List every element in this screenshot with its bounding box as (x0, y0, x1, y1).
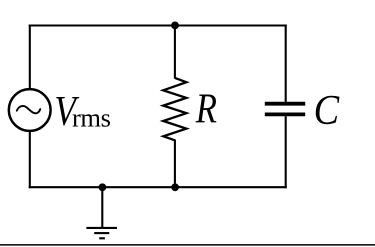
voltage source U1 (AC) (9, 89, 51, 131)
wire: AC source bottom to bottom rail (29, 131, 31, 188)
svg-text:R: R (195, 86, 217, 132)
resistor R (163, 78, 186, 140)
wire: capacitor to bottom rail (285, 116, 287, 188)
node: top junction dot (171, 22, 179, 30)
label Vrms (54, 89, 110, 135)
wire: bottom rail to ground (101, 187, 103, 227)
wire: top rail (29, 24, 287, 26)
node: resistor bottom junction dot (171, 183, 179, 191)
wire: bottom rail (29, 186, 287, 188)
bottom rule (0, 244, 375, 246)
wire: top rail to resistor (174, 26, 176, 79)
wire: left side, top rail down to AC source (29, 25, 31, 89)
ground (86, 228, 117, 238)
wire: resistor to bottom rail (174, 140, 176, 188)
node: ground junction dot (99, 183, 107, 191)
svg-text:rms: rms (72, 103, 111, 133)
capacitor C (265, 104, 305, 115)
svg-text:C: C (314, 88, 340, 134)
wire: right side, top rail down to capacitor (285, 25, 287, 102)
